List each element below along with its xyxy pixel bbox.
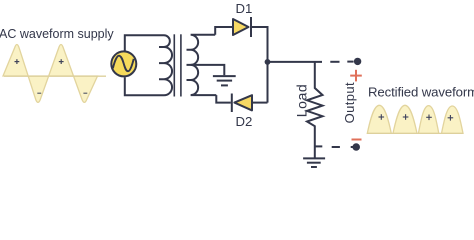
svg-text:Rectified waveform: Rectified waveform (368, 84, 474, 99)
svg-text:Output: Output (342, 82, 357, 123)
svg-text:D1: D1 (236, 1, 253, 16)
svg-text:Load: Load (293, 84, 309, 117)
svg-text:AC waveform supply: AC waveform supply (0, 27, 114, 41)
svg-text:D2: D2 (236, 114, 253, 129)
